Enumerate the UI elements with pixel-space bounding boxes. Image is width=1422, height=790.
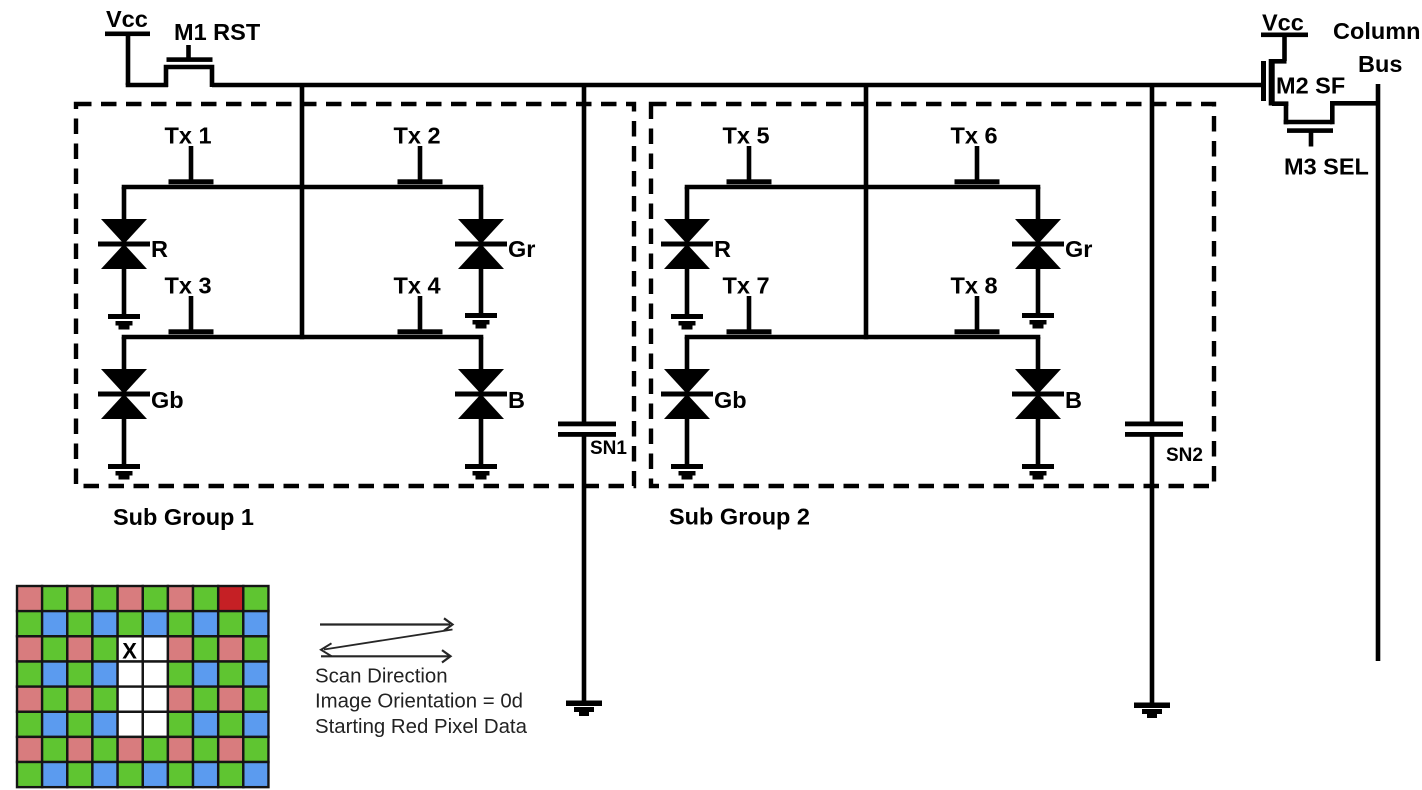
svg-text:M2 SF: M2 SF bbox=[1276, 73, 1345, 99]
wire: sub group 1 row-1 channel bbox=[122, 185, 484, 190]
transfer gate Tx 4 bbox=[393, 273, 442, 335]
svg-text:Tx 2: Tx 2 bbox=[393, 123, 440, 149]
wire: M2 source to M3 drain bbox=[1284, 102, 1289, 125]
capacitor SN1 bbox=[558, 422, 627, 460]
ground (Gr, sub group 1) bbox=[465, 313, 497, 329]
caption Image Orientation bbox=[315, 691, 523, 713]
svg-text:M3 SEL: M3 SEL bbox=[1284, 154, 1369, 180]
scan arrow (row 2, left to right) bbox=[321, 650, 451, 662]
photodiode Gb (sub group 1) bbox=[98, 337, 184, 466]
svg-text:R: R bbox=[714, 236, 731, 262]
ground (Gb, sub group 2) bbox=[671, 464, 703, 480]
svg-text:Image Orientation = 0d: Image Orientation = 0d bbox=[315, 691, 523, 713]
wire: rail drop into sub group 1 bbox=[300, 85, 305, 339]
transistor M1 RST bbox=[166, 19, 261, 87]
label Sub Group 2 bbox=[669, 504, 810, 530]
transfer gate Tx 7 bbox=[722, 273, 771, 335]
ground (Gb, sub group 1) bbox=[108, 464, 140, 480]
svg-text:R: R bbox=[151, 236, 168, 262]
svg-text:Column: Column bbox=[1333, 18, 1420, 44]
transfer gate Tx 2 bbox=[393, 123, 442, 185]
svg-text:Starting Red Pixel Data: Starting Red Pixel Data bbox=[315, 716, 528, 738]
wire: M3 source to column bus bbox=[1332, 103, 1380, 124]
caption Starting Red Pixel Data bbox=[315, 716, 528, 738]
wire: column bus bbox=[1376, 84, 1381, 661]
transistor M3 SEL bbox=[1284, 122, 1369, 180]
svg-text:Tx 6: Tx 6 bbox=[950, 123, 997, 149]
power Vcc (top right) bbox=[1261, 10, 1308, 62]
photodiode Gr (sub group 1) bbox=[455, 187, 535, 315]
label Sub Group 1 bbox=[113, 504, 254, 530]
power Vcc (top left) bbox=[105, 6, 150, 85]
svg-text:B: B bbox=[508, 387, 525, 413]
photodiode B (sub group 2) bbox=[1012, 337, 1082, 466]
wire: Vcc to M1 source bbox=[126, 83, 168, 88]
wire: sub group 1 row-2 channel bbox=[122, 335, 484, 340]
scan retrace diagonal bbox=[321, 630, 453, 657]
transfer gate Tx 8 bbox=[950, 273, 999, 335]
svg-text:Gr: Gr bbox=[508, 236, 535, 262]
photodiode Gr (sub group 2) bbox=[1012, 187, 1092, 315]
caption Scan Direction bbox=[315, 666, 448, 688]
svg-text:Gb: Gb bbox=[151, 387, 184, 413]
ground (R, sub group 1) bbox=[108, 314, 140, 330]
svg-text:Gr: Gr bbox=[1065, 236, 1092, 262]
svg-text:Tx 4: Tx 4 bbox=[393, 273, 440, 299]
wire: sub group 2 row-2 channel bbox=[685, 335, 1041, 340]
svg-text:Tx 3: Tx 3 bbox=[164, 273, 211, 299]
photodiode R (sub group 1) bbox=[98, 187, 168, 316]
svg-text:SN1: SN1 bbox=[590, 438, 627, 459]
svg-text:Bus: Bus bbox=[1358, 51, 1402, 77]
transfer gate Tx 6 bbox=[950, 123, 999, 185]
svg-text:Gb: Gb bbox=[714, 387, 747, 413]
photodiode B (sub group 1) bbox=[455, 337, 525, 466]
wire: floating-diffusion rail (M1 to M2 gate) bbox=[212, 83, 1262, 88]
transfer gate Tx 5 bbox=[722, 123, 771, 185]
transfer gate Tx 3 bbox=[164, 273, 213, 335]
ground (R, sub group 2) bbox=[671, 314, 703, 330]
svg-text:M1 RST: M1 RST bbox=[174, 19, 261, 45]
svg-text:X: X bbox=[122, 639, 137, 664]
label Bus bbox=[1358, 51, 1402, 77]
sub group 1 boundary (dashed box) bbox=[76, 104, 634, 486]
sub group 2 boundary (dashed box) bbox=[651, 104, 1214, 486]
svg-text:B: B bbox=[1065, 387, 1082, 413]
ground (B, sub group 1) bbox=[465, 464, 497, 480]
wire: rail to SN1 capacitor bbox=[582, 85, 587, 422]
label Column bbox=[1333, 18, 1420, 44]
ground (Gr, sub group 2) bbox=[1022, 313, 1054, 329]
svg-text:Scan Direction: Scan Direction bbox=[315, 666, 448, 688]
ground (B, sub group 2) bbox=[1022, 464, 1054, 480]
svg-text:Vcc: Vcc bbox=[1262, 10, 1304, 36]
svg-text:Sub Group 2: Sub Group 2 bbox=[669, 504, 810, 530]
wire: rail to SN2 capacitor bbox=[1150, 85, 1155, 422]
wire: rail drop into sub group 2 bbox=[864, 85, 869, 339]
svg-text:Tx 8: Tx 8 bbox=[950, 273, 997, 299]
svg-text:Tx 5: Tx 5 bbox=[722, 123, 769, 149]
svg-text:Tx 1: Tx 1 bbox=[164, 123, 211, 149]
ground (SN2) bbox=[1134, 703, 1170, 719]
svg-text:Sub Group 1: Sub Group 1 bbox=[113, 504, 254, 530]
transistor M2 SF bbox=[1261, 59, 1345, 106]
svg-text:SN2: SN2 bbox=[1166, 445, 1203, 466]
scan arrow (row 1, left to right) bbox=[320, 618, 453, 630]
ground (SN1) bbox=[566, 701, 602, 717]
svg-text:Vcc: Vcc bbox=[106, 6, 148, 32]
wire: SN2 to ground bbox=[1150, 437, 1155, 705]
Bayer pixel array (10x8) bbox=[17, 586, 268, 787]
capacitor SN2 bbox=[1125, 422, 1203, 467]
wire: sub group 2 row-1 channel bbox=[685, 185, 1041, 190]
wire: SN1 to ground bbox=[582, 437, 587, 703]
marker X (starting pixel) bbox=[122, 639, 137, 664]
transfer gate Tx 1 bbox=[164, 123, 213, 185]
svg-text:Tx 7: Tx 7 bbox=[722, 273, 769, 299]
photodiode R (sub group 2) bbox=[661, 187, 731, 316]
photodiode Gb (sub group 2) bbox=[661, 337, 747, 466]
